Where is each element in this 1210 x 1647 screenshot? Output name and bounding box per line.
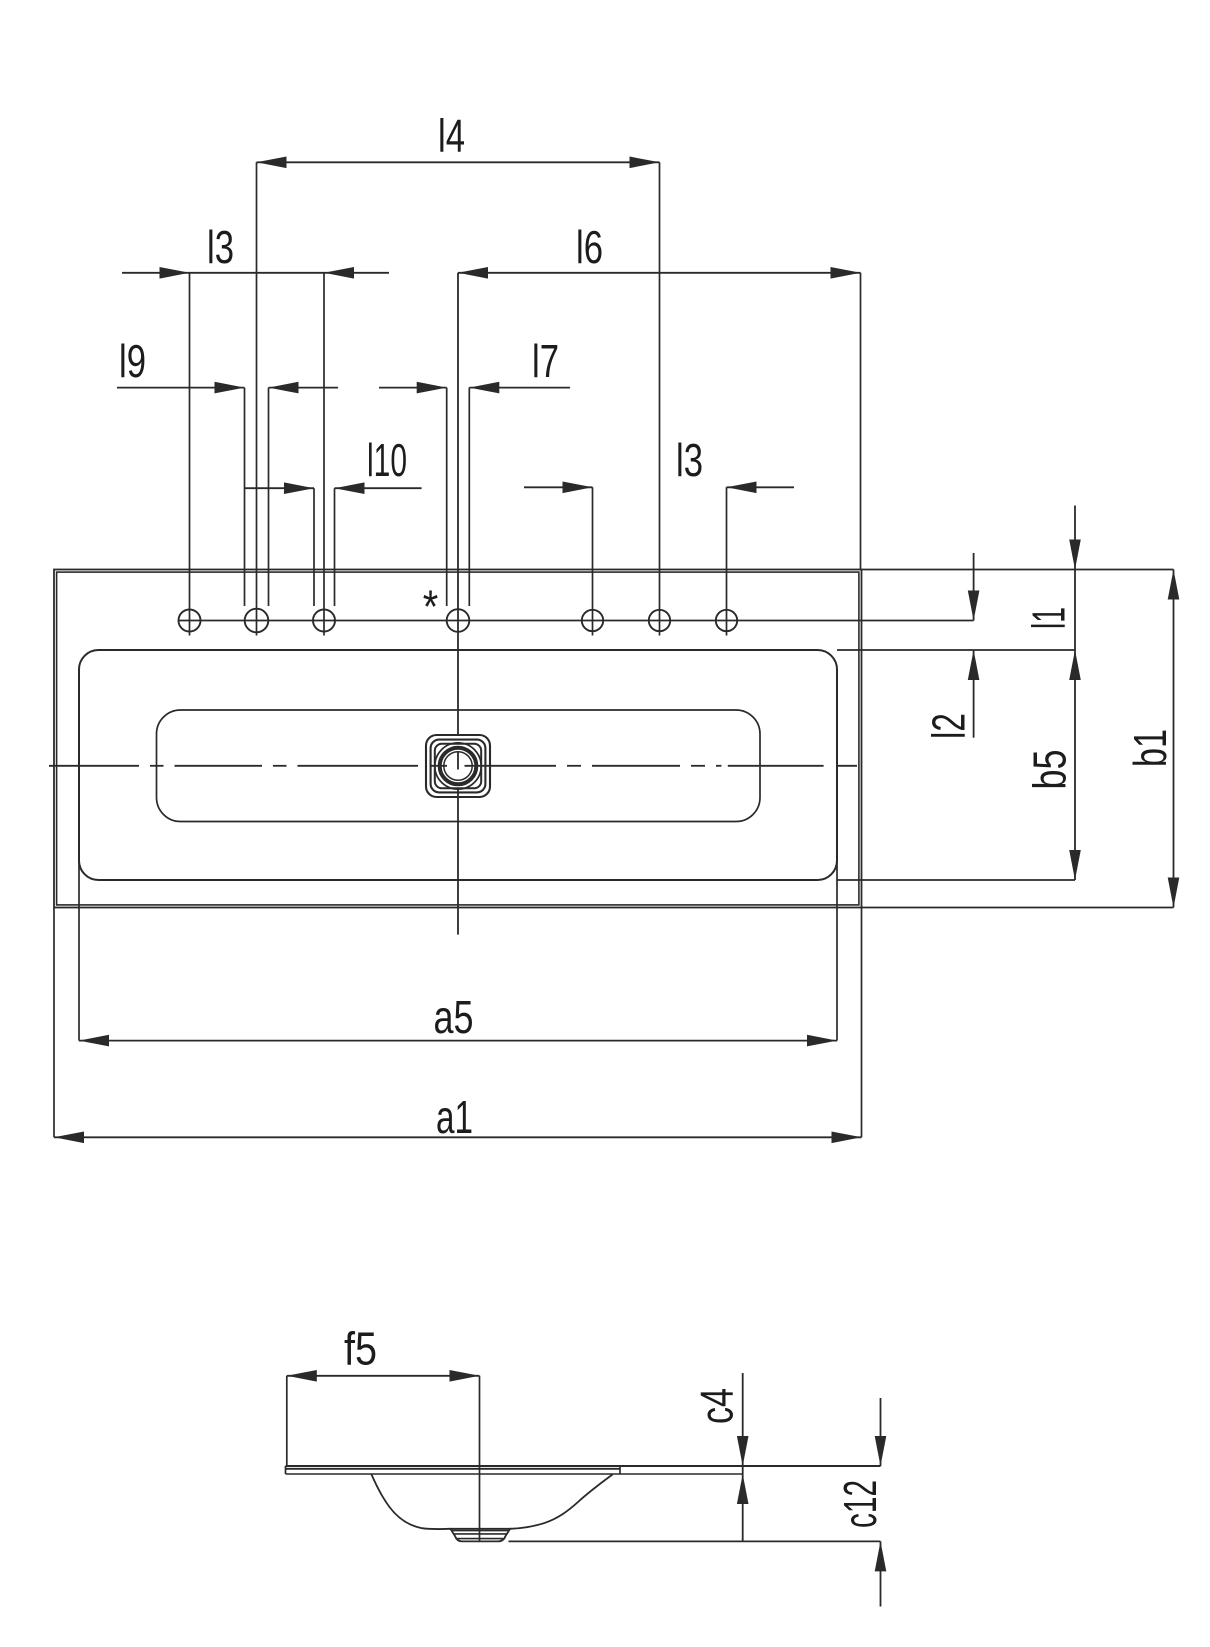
faucet hole H2: [245, 609, 269, 633]
svg-text:*: *: [423, 581, 439, 633]
faucet holes centre line: [178, 620, 974, 622]
faucet hole H5: [582, 610, 603, 631]
section: bowl profile: [371, 1474, 450, 1529]
dimension l6: [458, 272, 861, 274]
faucet hole H6: [649, 610, 670, 631]
svg-text:l3: l3: [676, 434, 703, 486]
dimension l7: [379, 387, 447, 389]
dimension f5: [286, 1376, 288, 1466]
svg-text:c4: c4: [691, 1388, 743, 1424]
svg-text:b1: b1: [1124, 729, 1176, 767]
dimension c4: [742, 1373, 744, 1541]
dimension l4: [257, 161, 660, 163]
svg-text:a5: a5: [434, 991, 474, 1043]
dimension l3 (left): [122, 272, 389, 274]
vertical centre line through drain (dash-dot): [457, 273, 459, 735]
svg-text:l4: l4: [438, 110, 465, 162]
svg-text:b5: b5: [1024, 750, 1076, 790]
dimension l2: [973, 553, 975, 621]
dimension b5: [1074, 650, 1076, 880]
svg-text:l3: l3: [207, 221, 234, 273]
drain assembly: [426, 735, 490, 797]
dimension l10: [245, 487, 315, 489]
basin rim (inner rounded rectangle): [79, 650, 837, 880]
dimension l3 (right): [524, 486, 593, 488]
faucet hole H4 (tap hole at centre): [447, 609, 470, 632]
faucet hole H7: [716, 610, 737, 631]
faucet hole H1: [179, 610, 201, 632]
dimension l1: [1074, 506, 1076, 651]
horizontal centre line (dash-dot): [49, 765, 139, 767]
svg-text:a1: a1: [436, 1091, 473, 1143]
basin floor (innermost rounded rectangle): [157, 710, 761, 822]
svg-text:l9: l9: [119, 335, 146, 387]
svg-text:l10: l10: [367, 434, 407, 486]
washbasin outer rectangle (double line): [54, 570, 862, 908]
svg-text:f5: f5: [344, 1323, 377, 1375]
dimension a5: [78, 852, 80, 1041]
dimension c12: [880, 1398, 882, 1466]
svg-text:c12: c12: [834, 1480, 886, 1528]
svg-text:l2: l2: [923, 713, 975, 739]
dimension l9: [117, 387, 245, 389]
svg-text:l6: l6: [576, 221, 603, 273]
dimension b1: [1173, 570, 1175, 908]
svg-text:l7: l7: [532, 335, 559, 387]
section: drain trap: [450, 1529, 510, 1542]
svg-text:l1: l1: [1023, 607, 1075, 629]
section: bowl bottom reference line: [509, 1540, 881, 1542]
section: basin flange slab: [286, 1465, 881, 1467]
right-side extension lines: [862, 569, 1174, 571]
dimension a1: [53, 908, 55, 1138]
faucet hole H3: [313, 610, 335, 632]
